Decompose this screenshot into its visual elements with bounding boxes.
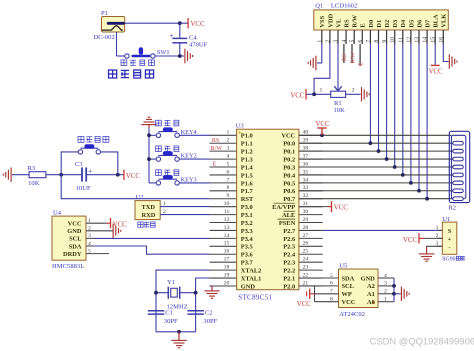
svg-text:P3.7: P3.7 (241, 260, 254, 267)
svg-text:2: 2 (325, 40, 331, 43)
svg-text:P1.3: P1.3 (241, 156, 253, 163)
svg-text:10: 10 (224, 201, 230, 207)
svg-text:BLA: BLA (433, 14, 440, 28)
svg-text:20: 20 (224, 280, 230, 286)
svg-text:4: 4 (226, 153, 229, 159)
svg-text:VCC: VCC (191, 21, 205, 28)
svg-text:DC-002: DC-002 (94, 34, 115, 41)
svg-text:D5: D5 (408, 20, 415, 28)
svg-text:RS: RS (344, 19, 351, 28)
svg-text:KEY4: KEY4 (181, 129, 198, 136)
svg-text:GND: GND (67, 228, 82, 235)
svg-text:P2.7: P2.7 (283, 228, 296, 235)
svg-text:RST: RST (241, 196, 254, 203)
svg-text:RS: RS (342, 54, 348, 61)
svg-text:D4: D4 (400, 19, 407, 28)
svg-text:SG90: SG90 (442, 256, 455, 262)
svg-text:P2.0: P2.0 (283, 283, 295, 290)
svg-text:E: E (360, 23, 367, 27)
svg-text:30: 30 (303, 209, 309, 215)
svg-text:D7: D7 (425, 19, 432, 28)
svg-text:3: 3 (334, 40, 340, 43)
svg-text:KEY3: KEY3 (181, 177, 197, 184)
svg-text:GND: GND (361, 275, 376, 282)
svg-text:C2: C2 (205, 310, 213, 317)
svg-text:9: 9 (382, 40, 388, 43)
svg-text:7: 7 (366, 40, 372, 43)
svg-text:P1: P1 (101, 10, 108, 17)
svg-text:10K: 10K (28, 180, 40, 187)
svg-text:RS: RS (212, 138, 219, 144)
svg-text:P2.6: P2.6 (283, 236, 296, 243)
svg-text:P3.5: P3.5 (241, 244, 253, 251)
svg-text:VCC: VCC (297, 301, 311, 308)
svg-text:VLK: VLK (441, 14, 448, 28)
svg-text:4: 4 (342, 40, 348, 43)
svg-text:GND: GND (241, 283, 256, 290)
svg-text:C3: C3 (75, 161, 83, 168)
svg-text:8: 8 (374, 40, 380, 43)
svg-text:6: 6 (330, 281, 333, 287)
svg-text:13: 13 (224, 225, 230, 231)
svg-text:9: 9 (226, 193, 229, 199)
svg-text:27: 27 (303, 233, 309, 239)
svg-text:+: + (88, 168, 92, 175)
svg-text:10: 10 (390, 37, 396, 43)
svg-text:P0.3: P0.3 (283, 164, 295, 171)
svg-text:2: 2 (226, 138, 229, 144)
svg-text:R3: R3 (28, 165, 36, 172)
svg-text:VCC: VCC (316, 121, 330, 128)
svg-text:TXD: TXD (142, 204, 156, 211)
svg-text:P3.3: P3.3 (241, 228, 253, 235)
svg-text:16: 16 (439, 37, 445, 43)
svg-text:P0.6: P0.6 (283, 188, 296, 195)
svg-text:XTAL2: XTAL2 (241, 268, 261, 275)
svg-text:HMC5883L: HMC5883L (52, 263, 84, 270)
svg-text:P0.5: P0.5 (283, 180, 295, 187)
svg-text:2: 2 (352, 88, 355, 94)
svg-text:SW1: SW1 (157, 49, 170, 56)
svg-text:R/W: R/W (350, 52, 356, 64)
svg-text:U4: U4 (53, 210, 62, 217)
svg-text:30PF: 30PF (203, 318, 217, 325)
svg-text:19: 19 (224, 272, 230, 278)
svg-text:5: 5 (226, 161, 229, 167)
svg-text:XTAL1: XTAL1 (241, 275, 261, 282)
svg-text:30PF: 30PF (164, 318, 178, 325)
svg-text:25: 25 (303, 249, 309, 255)
svg-text:+: + (170, 32, 174, 39)
svg-text:SDA: SDA (69, 243, 82, 250)
svg-text:U1: U1 (442, 216, 450, 223)
svg-text:C1: C1 (165, 310, 173, 317)
svg-text:P0.7: P0.7 (283, 196, 296, 203)
svg-text:14: 14 (423, 37, 429, 43)
svg-text:D0: D0 (368, 20, 375, 28)
svg-text:3: 3 (226, 146, 229, 152)
svg-text:P3.1: P3.1 (241, 212, 253, 219)
svg-text:VCC: VCC (334, 205, 348, 212)
svg-text:11: 11 (224, 209, 230, 215)
svg-text:P3.6: P3.6 (241, 252, 254, 259)
svg-text:A2: A2 (367, 283, 375, 290)
svg-text:VCC: VCC (403, 237, 417, 244)
svg-text:AT24C02: AT24C02 (339, 311, 365, 318)
svg-text:P0.2: P0.2 (283, 156, 295, 163)
svg-text:D3: D3 (392, 20, 399, 28)
svg-text:5: 5 (330, 273, 333, 279)
svg-text:D1: D1 (376, 20, 383, 28)
svg-text:U2: U2 (135, 194, 143, 201)
svg-text:6: 6 (226, 169, 229, 175)
svg-text:P1.1: P1.1 (241, 141, 253, 148)
svg-text:VCC: VCC (429, 68, 443, 75)
svg-text:SCL: SCL (342, 283, 354, 290)
svg-text:P1.4: P1.4 (241, 164, 254, 171)
svg-text:16: 16 (224, 249, 230, 255)
svg-text:14: 14 (224, 233, 230, 239)
svg-text:7: 7 (226, 177, 229, 183)
svg-text:VDD: VDD (327, 13, 334, 27)
svg-text:1: 1 (317, 40, 323, 43)
svg-text:28: 28 (303, 225, 309, 231)
svg-text:11: 11 (398, 37, 404, 43)
svg-text:12: 12 (224, 217, 230, 223)
svg-text:P1.6: P1.6 (241, 180, 254, 187)
svg-text:Y1: Y1 (167, 279, 175, 286)
svg-text:VL: VL (335, 19, 342, 28)
svg-text:VCC: VCC (113, 221, 127, 228)
svg-text:VCC: VCC (68, 221, 82, 228)
svg-text:12: 12 (406, 37, 412, 43)
svg-text:E: E (213, 162, 217, 168)
svg-text:U5: U5 (339, 263, 348, 270)
svg-text:U3: U3 (236, 122, 245, 129)
svg-text:P1.7: P1.7 (241, 188, 254, 195)
svg-text:P1.5: P1.5 (241, 172, 253, 179)
svg-text:P2.2: P2.2 (283, 268, 295, 275)
svg-text:VCC: VCC (126, 173, 140, 180)
svg-text:D2: D2 (384, 20, 391, 28)
svg-text:24: 24 (303, 257, 309, 263)
svg-text:CSDN @QQ1928499906: CSDN @QQ1928499906 (370, 335, 474, 346)
svg-text:23: 23 (303, 265, 309, 271)
svg-text:P1.2: P1.2 (241, 149, 253, 156)
svg-text:VCC: VCC (342, 299, 356, 306)
svg-text:A0: A0 (367, 299, 375, 306)
svg-text:26: 26 (303, 241, 309, 247)
svg-text:D6: D6 (416, 19, 423, 28)
svg-text:15: 15 (431, 37, 437, 43)
svg-text:P1.0: P1.0 (241, 133, 253, 140)
svg-text:VCC: VCC (290, 92, 304, 99)
svg-text:8: 8 (226, 185, 229, 191)
svg-text:STC89C51: STC89C51 (238, 293, 272, 301)
svg-text:VCC: VCC (281, 133, 295, 140)
svg-text:6: 6 (358, 40, 364, 43)
svg-text:17: 17 (224, 257, 230, 263)
svg-text:P3.0: P3.0 (241, 204, 253, 211)
svg-text:RXD: RXD (142, 212, 156, 219)
svg-text:VSS: VSS (319, 15, 326, 27)
svg-text:1: 1 (226, 130, 229, 136)
svg-text:P0.4: P0.4 (283, 172, 296, 179)
svg-text:P0.0: P0.0 (283, 141, 295, 148)
svg-text:29: 29 (303, 217, 309, 223)
svg-text:P2.1: P2.1 (283, 275, 295, 282)
svg-text:P2.3: P2.3 (283, 260, 295, 267)
svg-text:P2.5: P2.5 (283, 244, 295, 251)
svg-text:A1: A1 (367, 291, 375, 298)
svg-text:15: 15 (224, 241, 230, 247)
svg-text:ALE: ALE (282, 212, 295, 219)
svg-text:SDA: SDA (342, 275, 355, 282)
svg-text:LCD1602: LCD1602 (331, 2, 357, 9)
svg-text:SCL: SCL (69, 236, 81, 243)
svg-text:5: 5 (350, 40, 356, 43)
svg-text:E: E (358, 62, 364, 66)
svg-text:470UF: 470UF (189, 42, 208, 49)
svg-text:WP: WP (342, 291, 352, 298)
svg-text:Q1: Q1 (315, 2, 323, 9)
svg-text:10K: 10K (334, 107, 346, 114)
svg-text:+: + (448, 237, 452, 243)
svg-text:R/W: R/W (352, 14, 359, 27)
svg-text:1: 1 (320, 88, 323, 94)
svg-text:10UF: 10UF (76, 185, 91, 192)
svg-text:P3.2: P3.2 (241, 220, 253, 227)
svg-text:18: 18 (224, 265, 230, 271)
svg-text:P0.1: P0.1 (283, 149, 295, 156)
svg-text:R1: R1 (334, 100, 342, 107)
svg-text:PSEN: PSEN (279, 220, 296, 227)
svg-text:DRDY: DRDY (63, 251, 82, 258)
svg-text:13: 13 (415, 37, 421, 43)
svg-text:KEY2: KEY2 (181, 153, 197, 160)
svg-text:P2.4: P2.4 (283, 252, 296, 259)
svg-text:C4: C4 (189, 34, 197, 41)
svg-text:P3.4: P3.4 (241, 236, 254, 243)
svg-text:R/W: R/W (211, 146, 223, 152)
svg-text:-: - (449, 245, 451, 251)
svg-text:EA/VPP: EA/VPP (272, 204, 295, 211)
svg-text:R2: R2 (449, 205, 456, 212)
